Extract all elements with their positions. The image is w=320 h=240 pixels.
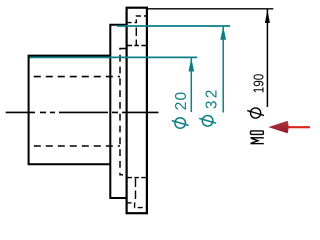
dia symbol Phi32: [199, 116, 216, 127]
text MD letter D (rotated): [251, 131, 264, 135]
text MD letter M (rotated): [250, 138, 263, 144]
hidden hole line lower: [29, 145, 120, 147]
hidden horizontal bottom flange: [128, 177, 147, 179]
hidden horizontal top flange: [128, 45, 147, 47]
hidden step bottom: [127, 203, 147, 208]
dim Phi32 arrowhead: [220, 26, 226, 40]
hidden vertical bottom flange: [135, 179, 137, 202]
shaft body outline: [29, 56, 110, 165]
dim Phi190 arrowhead: [265, 9, 270, 23]
svg-text:20: 20: [173, 91, 190, 111]
hidden step top: [127, 16, 147, 23]
dim Phi32 dimension line: [222, 27, 224, 113]
dim Phi20 extension line: [30, 56, 198, 58]
dim Phi20 arrowhead: [189, 58, 195, 72]
svg-text:32: 32: [204, 87, 221, 109]
hub outline: [110, 25, 126, 198]
dim Phi32 extension line: [117, 25, 230, 27]
svg-text:190: 190: [250, 74, 267, 94]
hidden hole line upper: [29, 76, 120, 78]
dim Phi20 dimension line: [190, 58, 192, 112]
red arrow head: [268, 121, 288, 134]
dim Phi190 dimension line: [266, 10, 268, 108]
dia symbol Phi20: [172, 118, 189, 129]
centerline: [6, 111, 159, 113]
dia symbol Phi190: [247, 108, 264, 118]
dim Phi190 extension line: [147, 8, 273, 10]
red arrow tail: [288, 126, 310, 128]
hidden vertical top flange: [135, 28, 137, 46]
flange rectangle: [127, 8, 147, 214]
hidden counterbore vertical: [120, 49, 126, 175]
